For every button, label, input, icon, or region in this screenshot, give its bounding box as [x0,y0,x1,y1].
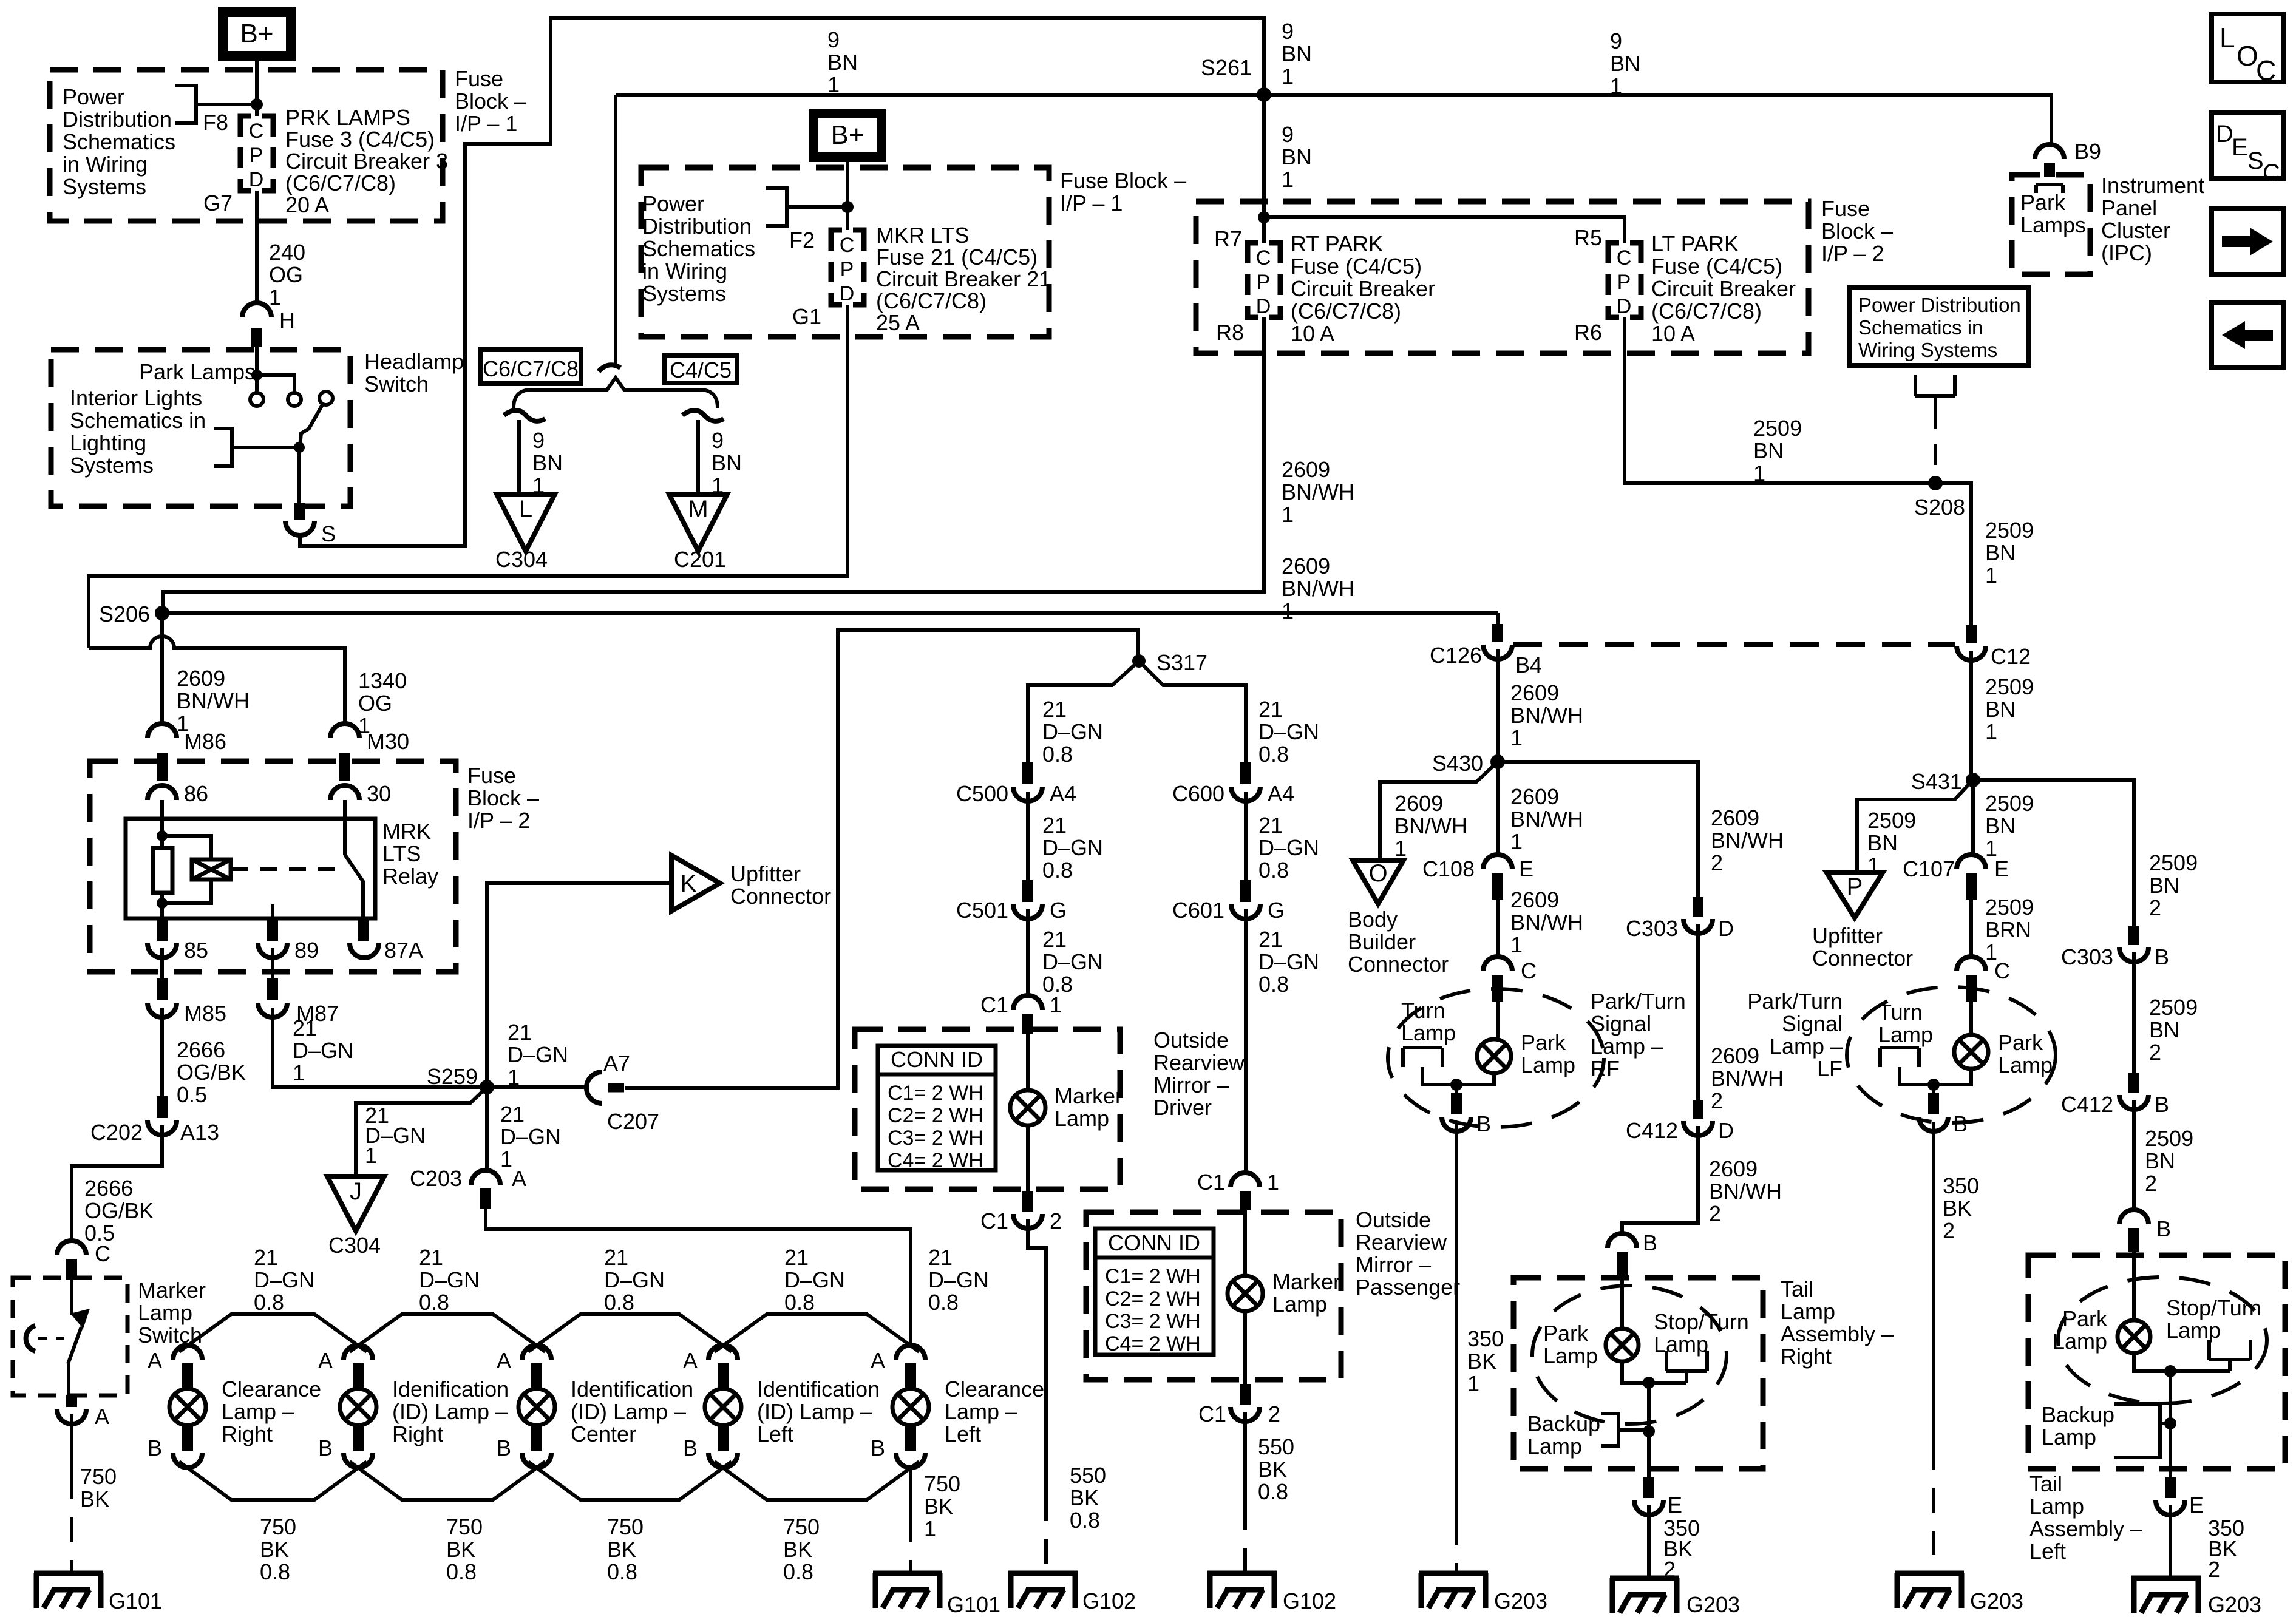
svg-text:BN: BN [1985,813,2016,838]
wire 550 BK drain (passenger) [1243,1412,1247,1505]
svg-text:C500: C500 [956,781,1008,806]
svg-text:RT PARK: RT PARK [1291,231,1383,256]
tail right dashed ellipse [1532,1286,1727,1424]
svg-text:E: E [1668,1493,1682,1517]
connector A (marker switch) [66,1395,77,1407]
connector C (LF lamp) [1957,957,1986,971]
svg-text:BK: BK [1943,1196,1972,1221]
connector triangle J (C304) [327,1176,384,1231]
svg-text:B4: B4 [1515,653,1542,677]
marker lamp switch dashed box [13,1278,127,1395]
svg-text:(ID) Lamp –: (ID) Lamp – [392,1399,508,1424]
svg-text:750: 750 [80,1464,117,1489]
svg-text:Schematics: Schematics [63,129,175,154]
svg-text:350: 350 [1943,1173,1979,1198]
svg-text:2: 2 [2149,895,2161,920]
wire S317 left branch [1028,661,1139,762]
svg-text:550: 550 [1258,1434,1294,1459]
svg-text:21: 21 [784,1245,809,1270]
svg-text:BN/WH: BN/WH [177,688,250,713]
relay blade to 87A [345,855,363,923]
svg-text:Circuit Breaker: Circuit Breaker [1291,276,1435,301]
svg-text:C: C [840,234,855,257]
svg-text:1: 1 [1510,725,1523,750]
node S208 [1928,476,1943,490]
connector 89 [267,918,278,941]
svg-text:Marker: Marker [1272,1269,1340,1294]
svg-text:Distribution: Distribution [642,214,752,239]
svg-text:Right: Right [1781,1344,1832,1369]
svg-text:Assembly –: Assembly – [2029,1516,2142,1541]
svg-text:E: E [1994,856,2009,881]
svg-text:D–GN: D–GN [1042,949,1103,974]
svg-text:2509: 2509 [1985,791,2034,816]
svg-text:1: 1 [1510,829,1523,854]
note Power Distribution Schematics (right) [1850,287,2028,365]
svg-text:0.8: 0.8 [607,1559,637,1584]
wire S return (to S261) [300,18,1264,546]
wire C into park lamp LF [1969,1002,1973,1035]
IPC park lamps dashed box [2012,175,2090,274]
svg-text:LTS: LTS [382,841,421,866]
wire main 9 BN bus [616,95,2051,143]
arrow box right [2212,209,2283,274]
connector B (LF) [1919,1117,1948,1131]
svg-text:C4= 2 WH: C4= 2 WH [1105,1332,1201,1355]
svg-text:D–GN: D–GN [1042,719,1103,744]
svg-text:Left: Left [2029,1539,2066,1564]
svg-text:BN/WH: BN/WH [1709,1179,1782,1204]
svg-text:2509: 2509 [2145,1126,2193,1151]
wire to LT PARK [1264,217,1625,243]
svg-text:D: D [1718,916,1734,941]
svg-text:Lamp: Lamp [1654,1332,1708,1357]
clearance/ID lamp 3 (Identification Center) [522,1345,551,1360]
svg-text:C1: C1 [1198,1402,1226,1426]
wire C303-C412 2609 BN/WH 2 [1696,924,1700,1100]
ground G101 (lamp chain) [873,1573,942,1608]
svg-text:(C6/C7/C8): (C6/C7/C8) [1651,299,1762,324]
wire M87 output 21 D-GN to S259 [273,1008,487,1087]
svg-text:Connector: Connector [730,884,831,909]
svg-text:Fuse (C4/C5): Fuse (C4/C5) [1651,254,1782,279]
svg-text:BN/WH: BN/WH [1510,910,1583,935]
svg-text:K: K [681,870,697,897]
svg-text:9: 9 [1282,19,1294,44]
svg-text:Signal: Signal [1591,1011,1651,1036]
svg-text:A4: A4 [1268,781,1294,806]
svg-text:1: 1 [1985,563,1997,588]
svg-text:D: D [249,168,264,191]
clearance/ID lamp 2 (Idenification Right) [344,1345,373,1360]
svg-text:MKR LTS: MKR LTS [876,223,969,248]
svg-text:C501: C501 [956,898,1008,923]
svg-text:Systems: Systems [63,174,146,199]
connector C203 A [471,1170,500,1185]
svg-text:0.8: 0.8 [1258,1479,1288,1504]
svg-text:S430: S430 [1432,751,1483,776]
svg-text:S317: S317 [1156,650,1207,675]
svg-text:0.8: 0.8 [419,1290,449,1315]
dashed wire C126 to C12 [1513,642,1955,647]
svg-text:Park: Park [2062,1306,2108,1331]
svg-text:C203: C203 [410,1166,462,1191]
svg-text:21: 21 [1258,813,1283,838]
park/turn signal lamp LF dashed ellipse [1847,987,2056,1123]
svg-text:1: 1 [1753,461,1765,486]
svg-text:B: B [871,1436,885,1460]
connector C1 1 (passenger) [1231,1173,1260,1187]
svg-text:Left: Left [945,1422,981,1446]
svg-text:OG/BK: OG/BK [84,1198,154,1223]
svg-text:B: B [148,1436,162,1460]
svg-text:21: 21 [928,1245,953,1270]
svg-text:PRK LAMPS: PRK LAMPS [285,105,410,130]
svg-text:BK: BK [80,1486,109,1511]
svg-text:E: E [2189,1493,2204,1517]
svg-text:Lamp: Lamp [1401,1020,1456,1045]
connector C12 [1966,625,1977,643]
svg-text:BN/WH: BN/WH [1711,1066,1784,1091]
svg-text:Upfitter: Upfitter [730,861,801,886]
park lamp RF [1477,1039,1511,1073]
svg-text:2609: 2609 [1510,887,1559,912]
connector H [242,303,271,317]
svg-text:Clearance: Clearance [945,1377,1044,1402]
svg-text:BN: BN [1985,697,2016,722]
svg-text:0.8: 0.8 [928,1290,959,1315]
connector C303 D [1693,897,1703,917]
svg-text:D: D [1256,295,1271,318]
wire C108 to C (RF lamp) [1496,900,1500,958]
marker lamp (passenger mirror) [1228,1276,1263,1311]
svg-text:Instrument: Instrument [2101,173,2204,198]
svg-text:Circuit Breaker 3: Circuit Breaker 3 [285,149,448,174]
svg-text:21: 21 [604,1245,628,1270]
svg-text:I/P – 1: I/P – 1 [455,111,517,136]
ground G203 (tail right) [1610,1578,1679,1613]
connector triangle K upfitter [671,855,720,911]
svg-text:P: P [1617,271,1631,294]
clearance/ID lamp 1 (Clearance Right) [173,1345,202,1360]
svg-text:2509: 2509 [2149,995,2198,1020]
svg-text:2609: 2609 [1282,554,1330,578]
wire 30 to blade [343,800,347,855]
svg-text:21: 21 [254,1245,278,1270]
svg-text:RF: RF [1591,1056,1620,1081]
svg-text:C207: C207 [607,1109,659,1134]
svg-text:2666: 2666 [84,1176,133,1201]
svg-text:21: 21 [1258,697,1283,722]
svg-text:C303: C303 [2061,944,2113,969]
svg-text:G: G [1268,898,1285,923]
wire chain bottom link 2 [350,1462,545,1500]
svg-text:D–GN: D–GN [254,1267,314,1292]
svg-text:1: 1 [1985,719,1997,744]
svg-text:1: 1 [1282,502,1294,527]
svg-text:S259: S259 [427,1064,478,1089]
connector C107 E [1957,855,1986,869]
wire B into park lamp (tail right) [1620,1275,1624,1329]
svg-text:9: 9 [712,428,724,453]
svg-text:1: 1 [1050,992,1062,1017]
svg-text:Schematics in: Schematics in [1858,316,1983,339]
svg-text:A: A [497,1348,511,1373]
connector C1 1 (driver) [1013,995,1042,1010]
svg-text:C1: C1 [980,992,1008,1017]
svg-text:M85: M85 [184,1001,226,1026]
wire 350 BK 1 drain (RF) [1455,1122,1458,1520]
marker lamp (driver mirror) [1010,1090,1045,1125]
svg-text:2609: 2609 [1510,784,1559,809]
wire chain top link 1 [179,1314,367,1352]
svg-text:Lamp: Lamp [1998,1053,2053,1077]
connector 87A [358,918,369,941]
svg-text:C304: C304 [328,1233,381,1258]
svg-text:R6: R6 [1574,320,1602,345]
svg-text:9: 9 [827,27,840,52]
svg-text:Lamp: Lamp [138,1300,192,1325]
svg-text:Lamp: Lamp [1521,1053,1575,1077]
svg-text:R5: R5 [1574,225,1602,250]
svg-text:C2= 2 WH: C2= 2 WH [1105,1287,1201,1310]
svg-text:Lamp: Lamp [2029,1494,2084,1519]
svg-text:O: O [1368,860,1387,887]
svg-text:Fuse 3 (C4/C5): Fuse 3 (C4/C5) [285,127,435,152]
svg-text:S: S [321,521,336,546]
svg-text:B: B [683,1436,698,1460]
wire hop over BN/WH wire, to M30 [89,636,345,724]
ground G101 (marker switch) [34,1573,103,1608]
svg-text:Upfitter: Upfitter [1812,923,1883,948]
svg-text:B: B [2155,944,2169,969]
fuse block I/P-1 dashed box (middle) [641,168,1049,337]
svg-text:Turn: Turn [1401,998,1445,1023]
svg-text:0.8: 0.8 [254,1290,284,1315]
svg-text:Lamp –: Lamp – [1770,1034,1843,1059]
svg-text:2509: 2509 [2149,850,2198,875]
svg-text:10 A: 10 A [1291,321,1334,346]
wire S430 to body builder O [1380,762,1498,860]
svg-text:D–GN: D–GN [419,1267,480,1292]
svg-text:0.8: 0.8 [1258,742,1289,767]
svg-text:Mirror –: Mirror – [1153,1073,1229,1097]
svg-text:Idenification: Idenification [392,1377,509,1402]
wire 89 to M87 [271,948,274,978]
wire S317 right branch [1139,661,1246,762]
svg-text:Schematics in: Schematics in [70,408,206,433]
svg-text:21: 21 [1042,813,1067,838]
svg-text:C412: C412 [2061,1092,2113,1117]
svg-text:BN/WH: BN/WH [1282,480,1354,504]
svg-text:1: 1 [1282,167,1294,192]
svg-text:B+: B+ [830,120,864,150]
wire park lamp to B (LF) [1934,1069,1971,1093]
wire B+ to fuse F2 [846,157,849,230]
svg-text:2509: 2509 [1985,674,2034,699]
svg-text:S206: S206 [99,602,150,626]
svg-text:(C6/C7/C8): (C6/C7/C8) [1291,299,1401,324]
svg-text:BN: BN [1867,830,1898,855]
svg-text:B9: B9 [2074,139,2101,164]
svg-text:BK: BK [1467,1349,1496,1374]
svg-text:Passenger: Passenger [1356,1275,1460,1300]
svg-text:2509: 2509 [1985,518,2034,543]
node F8 [251,98,263,110]
svg-text:Backup: Backup [1527,1411,1600,1436]
svg-text:C1= 2 WH: C1= 2 WH [888,1082,983,1105]
svg-text:H: H [279,308,295,333]
svg-text:Lamp: Lamp [1527,1434,1582,1459]
svg-text:B: B [497,1436,511,1460]
wire chain bottom link 1 [179,1462,367,1500]
svg-text:0.8: 0.8 [1258,858,1289,883]
svg-text:Marker: Marker [138,1278,206,1303]
node S259 [480,1080,494,1094]
svg-text:A: A [95,1404,109,1429]
svg-text:1: 1 [1467,1371,1479,1396]
node S430 [1490,754,1505,769]
svg-text:C303: C303 [1626,916,1678,941]
svg-text:O: O [2237,40,2258,72]
svg-text:(IPC): (IPC) [2101,240,2152,265]
svg-text:Lamp: Lamp [1543,1343,1598,1368]
wire 240 OG 1 [255,191,259,303]
connector E (tail left) [2156,1500,2185,1515]
svg-text:(ID) Lamp –: (ID) Lamp – [571,1399,686,1424]
wire riser to upfitter K [487,883,671,1087]
svg-text:C1: C1 [980,1209,1008,1233]
svg-text:G102: G102 [1082,1588,1136,1613]
connector C202 A13 [148,1120,177,1135]
svg-text:1: 1 [1267,1170,1279,1195]
park/turn signal lamp RF dashed ellipse [1388,989,1604,1127]
fuse CPD 25A (Circuit Breaker 21) [831,230,864,305]
svg-text:0.8: 0.8 [260,1559,290,1584]
svg-text:2: 2 [1709,1201,1721,1226]
wire marker lamp to C1-2 (passenger) [1243,1311,1247,1384]
svg-text:Interior Lights: Interior Lights [70,385,202,410]
svg-text:D–GN: D–GN [508,1042,568,1067]
connector 30 [330,785,359,800]
svg-text:Connector: Connector [1348,952,1449,977]
headlamp switch contacts [255,347,259,392]
connector B (tail right) [1608,1233,1637,1248]
svg-text:A13: A13 [180,1120,219,1145]
svg-text:C6/C7/C8: C6/C7/C8 [483,356,579,381]
svg-text:Circuit Breaker 21: Circuit Breaker 21 [876,266,1051,291]
connector C126 B4 [1483,645,1512,659]
ground G102 (passenger mirror) [1207,1573,1277,1608]
svg-text:S208: S208 [1914,495,1965,520]
connector C412 B [2128,1073,2139,1093]
wire park lamp to B (RF) [1456,1073,1494,1093]
wire 9 BN 1 to C304 [517,420,521,494]
connector triangle M (C201) [669,494,727,551]
bracket under note [1915,375,1955,408]
svg-text:R7: R7 [1214,226,1242,251]
svg-text:Systems: Systems [642,281,726,306]
svg-text:LF: LF [1817,1056,1843,1081]
svg-text:Connector: Connector [1812,946,1913,971]
svg-text:Park: Park [1521,1030,1566,1055]
wire 85 to M85 [160,948,164,978]
connector C (marker switch) [57,1241,86,1255]
svg-text:Block –: Block – [455,89,526,114]
wire chain top link 3 [528,1314,732,1352]
wire S431 down to C107 [1971,780,1975,856]
svg-text:S: S [2247,147,2264,174]
park lamp (tail right) [1606,1329,1639,1361]
CONN ID box (passenger) [1095,1229,1214,1355]
svg-text:Center: Center [571,1422,636,1446]
wire C500-C501 [1026,792,1030,880]
svg-text:9: 9 [532,428,545,453]
wire switch output to S [297,447,301,503]
svg-text:C107: C107 [1903,856,1955,881]
svg-text:21: 21 [293,1015,317,1040]
svg-text:Driver: Driver [1153,1095,1212,1120]
svg-text:Lamp: Lamp [1781,1299,1835,1324]
svg-text:G7: G7 [203,191,233,215]
svg-text:C: C [1256,246,1271,269]
svg-text:Lamp: Lamp [2042,1425,2096,1449]
svg-text:21: 21 [1042,927,1067,952]
wire S206 down 2609 BN/WH to M86 [160,613,164,724]
svg-text:C1: C1 [1197,1170,1225,1195]
svg-text:D: D [2216,121,2233,147]
svg-text:Lamp: Lamp [2166,1318,2221,1343]
connector box C4/C5 [664,355,737,383]
svg-text:C600: C600 [1172,781,1224,806]
svg-text:BN/WH: BN/WH [1510,703,1583,728]
svg-text:(C6/C7/C8): (C6/C7/C8) [876,288,987,313]
svg-text:Circuit Breaker: Circuit Breaker [1651,276,1796,301]
svg-text:G203: G203 [1970,1588,2023,1613]
svg-text:1: 1 [269,285,281,310]
svg-text:A7: A7 [603,1051,630,1076]
wire LT PARK output 2509 BN to S208 [1625,317,1971,625]
wire bus drop to split [614,95,617,364]
svg-text:C202: C202 [90,1120,143,1145]
wire park lamp junction (tail right) [1622,1361,1686,1431]
wire S430 down to C108 [1496,762,1500,856]
svg-text:D–GN: D–GN [1042,835,1103,860]
connector E (tail right) [1634,1500,1663,1515]
svg-text:0.8: 0.8 [604,1290,634,1315]
svg-text:20 A: 20 A [285,192,329,217]
connector C601 G [1231,904,1260,919]
svg-text:2: 2 [2145,1171,2157,1196]
relay 89 stub [271,904,274,923]
svg-text:Backup: Backup [2042,1402,2114,1427]
svg-text:Park: Park [1998,1030,2043,1055]
fuse CPD RT PARK 10A [1248,243,1280,317]
svg-text:C1= 2 WH: C1= 2 WH [1105,1265,1201,1288]
turn lamp element LF [1880,1048,1934,1085]
wire C412 to B (tail left) 2509 BN 2 [2132,1100,2136,1211]
wire S206 bus [162,611,1498,615]
svg-text:P: P [250,144,263,167]
tail lamp assembly right dashed box [1513,1278,1763,1469]
relay coil resistor [153,848,172,893]
svg-text:Fuse: Fuse [455,66,503,91]
wire 86 into relay coil [160,800,164,848]
svg-text:M: M [688,496,708,523]
svg-text:BK: BK [607,1537,636,1562]
park lamp (tail left) [2118,1320,2150,1353]
svg-text:BN: BN [712,450,742,475]
